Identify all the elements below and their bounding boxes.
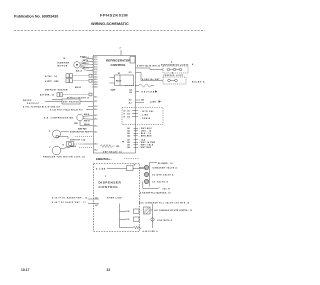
svg-text:- WTR VAL: - WTR VAL [140, 110, 154, 113]
svg-text:A ICE DISP FILL VALVE BLK - 1: A ICE DISP FILL VALVE BLK - 14 [140, 191, 170, 194]
svg-text:EMB2500+--: EMB2500+-- [96, 157, 112, 161]
wire defrost connector [56, 136, 93, 142]
svg-text:10-17: 10-17 [21, 268, 30, 272]
svg-text:DEF RELAY 14: DEF RELAY 14 [103, 150, 122, 153]
svg-text:P8: P8 [122, 141, 124, 143]
J1 pin labels inside left edge [92, 57, 94, 87]
svg-text:A/C CHARGER I2F WTR CENTER - 1: A/C CHARGER I2F WTR CENTER - 12 [155, 209, 193, 212]
refrigerator control U1 box [93, 56, 135, 154]
svg-text:- DRAIN: - DRAIN [140, 117, 151, 120]
damper motor wires to J1 [76, 56, 93, 72]
defrost heater R2 box [45, 96, 93, 104]
svg-text:J6-3: J6-3 [94, 150, 97, 152]
node NEUTRAL [136, 90, 158, 93]
svg-text:J5-1: J5-1 [94, 115, 97, 117]
header dashed separator [14, 30, 205, 32]
wire relay kit [50, 108, 93, 111]
svg-text:J2-2: J2-2 [129, 100, 132, 102]
svg-text:LINE: LINE [150, 102, 157, 104]
svg-text:DEFROST 14A: DEFROST 14A [70, 139, 86, 142]
svg-text:DAMPER: DAMPER [58, 62, 70, 65]
connector P3 row WTP [45, 79, 92, 83]
svg-text:BULBS A: BULBS A [192, 80, 205, 83]
svg-text:NEUTRAL: NEUTRAL [142, 90, 158, 93]
svg-text:A B. COMPRESSOR MB: A B. COMPRESSOR MB [44, 117, 74, 120]
svg-text:FPHS2K02M: FPHS2K02M [100, 13, 128, 18]
svg-text:J1-1: J1-1 [94, 57, 97, 59]
wire coiled neutral [136, 84, 155, 87]
aux fill valve branch [144, 204, 193, 228]
svg-text:J8-1: J8-1 [127, 140, 130, 142]
svg-text:A#F WTR - 14: A#F WTR - 14 [40, 94, 54, 97]
svg-text:J1-3: J1-3 [94, 62, 97, 64]
svg-text:A STL FLORIDA BLK-W GND KIT: A STL FLORIDA BLK-W GND KIT [23, 105, 61, 108]
wire to refrigerator lights [136, 65, 164, 70]
svg-text:P1: P1 [124, 113, 126, 115]
svg-text:MOTOR: MOTOR [58, 65, 68, 67]
relay K1 sub-box [110, 73, 138, 94]
wire florida ground [23, 105, 93, 108]
svg-text:K1: K1 [118, 73, 120, 75]
svg-text:- BRN-RED: - BRN-RED [139, 136, 152, 138]
node A LINE row [96, 164, 146, 171]
water valve labels [152, 162, 177, 190]
svg-text:A 140 VOLT FIELD RELAY KIT: A 140 VOLT FIELD RELAY KIT [50, 108, 84, 111]
svg-text:WIRING-SCHEMATIC: WIRING-SCHEMATIC [91, 22, 129, 26]
svg-text:J7-2: J7-2 [127, 113, 130, 115]
svg-text:ICEMAKER VALVE A: ICEMAKER VALVE A [152, 166, 177, 169]
svg-text:J1-6: J1-6 [94, 69, 97, 71]
connector block J7 [122, 108, 163, 125]
svg-text:J2-2: J2-2 [94, 77, 97, 79]
svg-text:J2-8: J2-8 [129, 89, 132, 91]
svg-text:J1-5: J1-5 [94, 67, 97, 69]
svg-text:J7-1: J7-1 [127, 110, 130, 112]
svg-text:EVAPORATOR FAN: EVAPORATOR FAN [70, 131, 89, 134]
damper motor M1 [58, 57, 81, 68]
svg-text:J2-1: J2-1 [129, 72, 132, 74]
svg-text:J2-3: J2-3 [129, 102, 132, 104]
svg-text:DEFROST HEATER: DEFROST HEATER [45, 89, 68, 92]
wire to freezer light [141, 78, 163, 81]
svg-text:J6-2: J6-2 [94, 144, 97, 146]
svg-text:22: 22 [107, 268, 111, 272]
svg-text:Publication No. 69953430: Publication No. 69953430 [14, 15, 58, 19]
svg-text:J1-2: J1-2 [94, 59, 97, 61]
svg-text:J2-5: J2-5 [94, 84, 97, 86]
svg-text:J2-3: J2-3 [94, 79, 97, 81]
svg-text:J2-7: J2-7 [94, 97, 97, 99]
svg-text:LINE WIRE A: LINE WIRE A [157, 219, 173, 222]
svg-text:EVAP FAN: EVAP FAN [78, 127, 87, 130]
svg-text:A WTR VALVE WHT-14: A WTR VALVE WHT-14 [137, 65, 160, 68]
wire thermistor dashed [40, 93, 92, 97]
freezer fan motor M3 [50, 145, 94, 155]
svg-text:A WTP - RED: A WTP - RED [45, 80, 59, 83]
connector J8 text block 3 [122, 139, 156, 150]
compressor aux motor M4 [44, 113, 93, 126]
wire power in 1 [52, 196, 99, 199]
svg-text:BLOWER - 14: BLOWER - 14 [158, 162, 173, 165]
svg-text:J2-9: J2-9 [129, 92, 132, 94]
svg-text:J8-3: J8-3 [127, 145, 130, 147]
connector P2 row THC [45, 74, 92, 78]
svg-text:24C N: 24C N [163, 187, 171, 190]
svg-text:DEF HEATER: DEF HEATER [63, 101, 79, 104]
svg-text:J1-7: J1-7 [94, 72, 97, 74]
transformer T1 [107, 198, 141, 230]
defrost thermostat S1 [63, 142, 94, 147]
svg-text:14: 14 [63, 57, 65, 60]
svg-text:CONTROL: CONTROL [99, 185, 120, 189]
svg-text:CONTROL: CONTROL [111, 63, 126, 67]
wire L bend J2 [129, 72, 142, 80]
wire power in 2 [52, 201, 99, 207]
svg-text:- WHT-RED: - WHT-RED [139, 147, 152, 149]
water valve assembly coils [140, 163, 160, 189]
svg-text:A LINE: A LINE [96, 167, 106, 170]
svg-text:AUX ICEMAKER FILL VALVE CTR WT: AUX ICEMAKER FILL VALVE CTR WTR 14 [139, 202, 189, 205]
solenoid Y1 [144, 207, 151, 214]
svg-text:J3-3: J3-3 [94, 109, 97, 111]
svg-text:- LINE: - LINE [140, 114, 149, 116]
DEF relay resistor R1 [100, 145, 122, 154]
svg-text:J2-6: J2-6 [94, 87, 97, 89]
svg-text:XFMR LINE: XFMR LINE [107, 198, 122, 200]
refrigerator lights L1 box [161, 61, 189, 73]
freezer light L2 box [163, 71, 186, 84]
svg-text:J2-1: J2-1 [94, 74, 97, 76]
svg-text:REFRIGERATOR: REFRIGERATOR [106, 59, 131, 63]
connector J4 text block 2 [127, 127, 152, 138]
svg-text:A 08 T DC BLACK WHT - 13: A 08 T DC BLACK WHT - 13 [52, 201, 86, 204]
svg-text:J6-1: J6-1 [94, 132, 97, 134]
svg-text:N1: N1 [128, 219, 130, 221]
svg-text:J7-3: J7-3 [127, 116, 130, 118]
svg-text:J5-2: J5-2 [94, 119, 97, 121]
svg-text:CU VALVE A: CU VALVE A [152, 180, 168, 183]
svg-text:N2: N2 [128, 211, 130, 213]
svg-text:A THC - 14: A THC - 14 [45, 75, 58, 78]
svg-text:F1: F1 [124, 116, 126, 118]
junction node [151, 218, 154, 221]
svg-text:J3-1: J3-1 [94, 101, 97, 103]
svg-text:J3-2: J3-2 [94, 106, 97, 108]
svg-text:WATER - - - - -: WATER - - - - - [23, 99, 43, 102]
svg-text:A 08-C2 WH 1+: A 08-C2 WH 1+ [143, 230, 159, 233]
evaporator fan motor M2 [49, 130, 93, 138]
svg-text:A 08 FT DC BAKER PWR - 14: A 08 FT DC BAKER PWR - 14 [52, 196, 88, 199]
node LINE [129, 99, 162, 105]
sub-box corner [130, 57, 135, 64]
svg-text:J8-2: J8-2 [127, 142, 130, 144]
svg-text:DEFROST --: DEFROST -- [27, 103, 44, 105]
svg-text:J5-3: J5-3 [94, 126, 97, 128]
dispenser control U2 dashed box [94, 164, 140, 232]
svg-text:CU WTR VALVE A: CU WTR VALVE A [152, 173, 174, 176]
svg-text:FREEZER FAN MOTOR 120V-14: FREEZER FAN MOTOR 120V-14 [43, 156, 85, 159]
